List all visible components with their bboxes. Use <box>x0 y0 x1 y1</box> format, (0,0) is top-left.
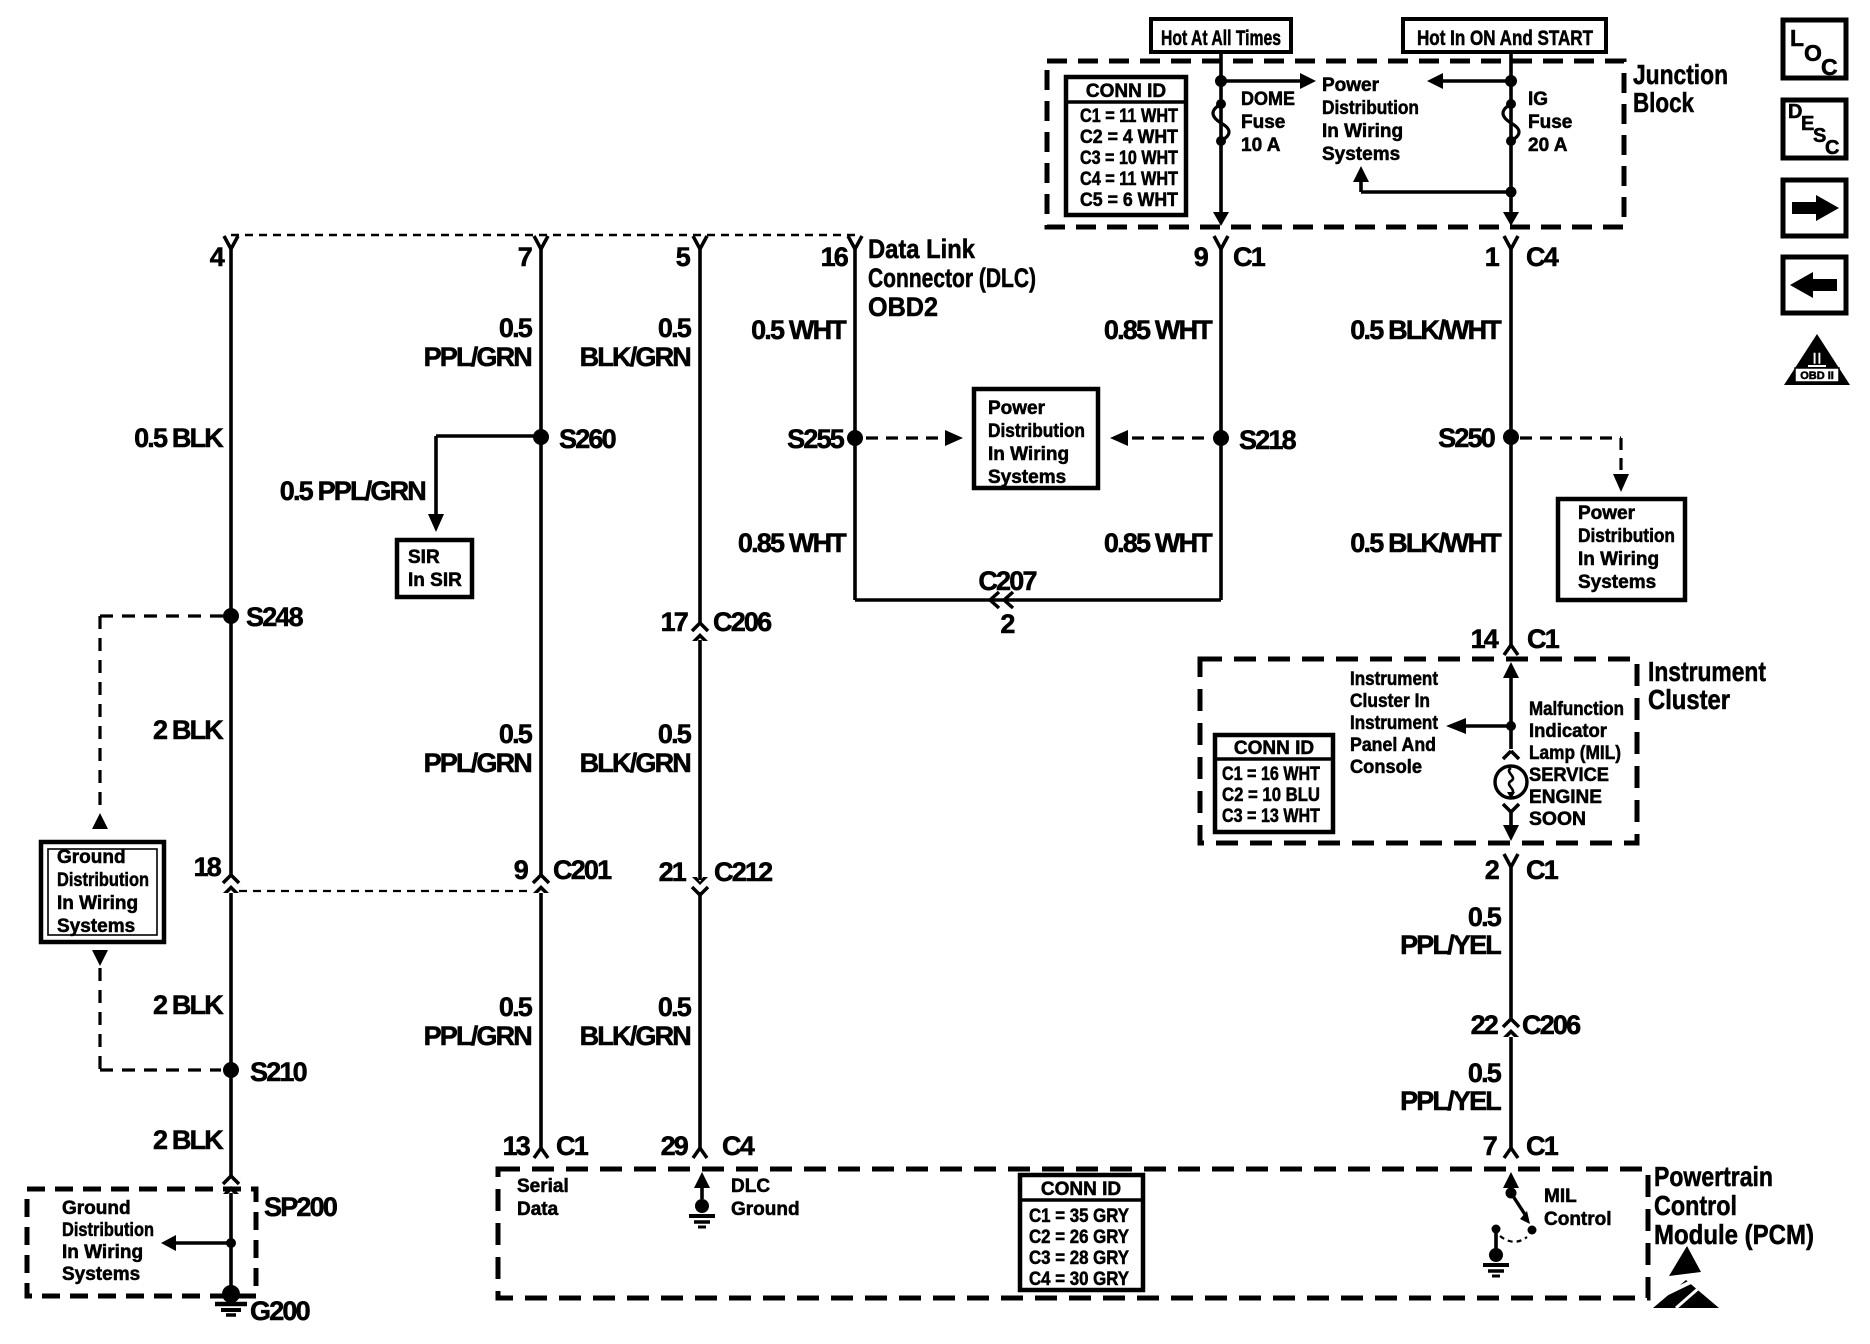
svg-text:C5 = 6 WHT: C5 = 6 WHT <box>1080 190 1178 211</box>
svg-text:C4: C4 <box>1526 242 1559 272</box>
svg-text:S210: S210 <box>250 1057 307 1087</box>
svg-text:Instrument: Instrument <box>1648 656 1766 687</box>
svg-text:In Wiring: In Wiring <box>1322 121 1403 142</box>
svg-text:PPL/YEL: PPL/YEL <box>1400 930 1501 960</box>
svg-text:In Wiring: In Wiring <box>62 1242 143 1263</box>
svg-text:Fuse: Fuse <box>1528 112 1572 133</box>
svg-text:Instrument: Instrument <box>1350 669 1439 690</box>
svg-text:Cluster: Cluster <box>1648 684 1730 715</box>
svg-text:C: C <box>1821 54 1838 80</box>
svg-text:SOON: SOON <box>1529 809 1586 830</box>
svg-text:9: 9 <box>1194 242 1209 272</box>
svg-text:PPL/GRN: PPL/GRN <box>424 342 532 372</box>
svg-text:C206: C206 <box>713 607 772 637</box>
svg-text:SERVICE: SERVICE <box>1529 765 1609 786</box>
svg-text:0.5: 0.5 <box>1468 902 1502 932</box>
svg-text:C1: C1 <box>1233 242 1266 272</box>
svg-text:C1: C1 <box>1526 1131 1559 1161</box>
svg-text:7: 7 <box>518 242 532 272</box>
svg-text:Systems: Systems <box>1322 144 1400 165</box>
svg-text:In Wiring: In Wiring <box>57 893 138 914</box>
svg-text:Distribution: Distribution <box>1578 526 1675 547</box>
svg-text:L: L <box>1790 25 1804 51</box>
svg-text:Serial: Serial <box>517 1176 569 1197</box>
svg-text:S218: S218 <box>1239 425 1297 455</box>
svg-text:16: 16 <box>821 242 849 272</box>
svg-text:In Wiring: In Wiring <box>988 444 1069 465</box>
svg-text:Console: Console <box>1350 757 1422 778</box>
svg-text:0.5: 0.5 <box>499 719 533 749</box>
svg-text:BLK/GRN: BLK/GRN <box>580 748 691 778</box>
svg-text:Connector (DLC): Connector (DLC) <box>868 263 1036 293</box>
svg-text:0.5 PPL/GRN: 0.5 PPL/GRN <box>280 476 426 506</box>
svg-text:ENGINE: ENGINE <box>1529 787 1602 808</box>
svg-text:CONN ID: CONN ID <box>1086 81 1166 102</box>
svg-text:Malfunction: Malfunction <box>1529 699 1624 720</box>
svg-text:C2 = 10 BLU: C2 = 10 BLU <box>1222 785 1320 806</box>
svg-text:2: 2 <box>1485 855 1499 885</box>
svg-text:OBD II: OBD II <box>1800 370 1834 382</box>
svg-text:9: 9 <box>514 855 529 885</box>
svg-text:13: 13 <box>503 1131 531 1161</box>
svg-text:S255: S255 <box>787 424 845 454</box>
svg-text:0.85 WHT: 0.85 WHT <box>1104 315 1213 345</box>
svg-text:Block: Block <box>1633 87 1694 118</box>
svg-text:C3 = 10 WHT: C3 = 10 WHT <box>1080 148 1178 169</box>
svg-text:0.5 BLK/WHT: 0.5 BLK/WHT <box>1350 315 1502 345</box>
svg-text:0.5 BLK: 0.5 BLK <box>134 423 224 453</box>
svg-text:0.5: 0.5 <box>658 313 692 343</box>
svg-text:0.85 WHT: 0.85 WHT <box>738 528 847 558</box>
svg-text:Ground: Ground <box>57 847 126 868</box>
svg-text:G200: G200 <box>250 1296 310 1326</box>
svg-text:Module (PCM): Module (PCM) <box>1654 1219 1814 1250</box>
svg-text:C206: C206 <box>1522 1010 1581 1040</box>
svg-text:O: O <box>1804 40 1822 66</box>
svg-text:C2 = 4 WHT: C2 = 4 WHT <box>1080 127 1178 148</box>
svg-text:S260: S260 <box>559 424 616 454</box>
svg-text:C4: C4 <box>722 1131 755 1161</box>
svg-text:0.5: 0.5 <box>1468 1058 1502 1088</box>
svg-text:2 BLK: 2 BLK <box>153 1125 224 1155</box>
svg-text:C1 = 11 WHT: C1 = 11 WHT <box>1080 106 1178 127</box>
svg-text:Distribution: Distribution <box>1322 98 1419 119</box>
svg-text:1: 1 <box>1485 242 1500 272</box>
svg-text:CONN ID: CONN ID <box>1041 1179 1121 1200</box>
svg-text:Power: Power <box>1322 75 1380 96</box>
svg-text:18: 18 <box>194 852 222 882</box>
svg-text:Systems: Systems <box>57 916 135 937</box>
svg-text:Data: Data <box>517 1199 559 1220</box>
svg-text:0.5: 0.5 <box>658 719 692 749</box>
svg-text:Distribution: Distribution <box>57 870 149 891</box>
svg-text:Power: Power <box>988 398 1046 419</box>
svg-text:SIR: SIR <box>408 547 440 568</box>
svg-text:In Wiring: In Wiring <box>1578 549 1659 570</box>
svg-text:C3 = 28 GRY: C3 = 28 GRY <box>1029 1248 1129 1269</box>
svg-text:2 BLK: 2 BLK <box>153 990 224 1020</box>
svg-text:C207: C207 <box>978 566 1036 596</box>
svg-text:Lamp (MIL): Lamp (MIL) <box>1529 743 1621 764</box>
svg-text:2: 2 <box>1000 609 1014 639</box>
svg-text:C4 = 30 GRY: C4 = 30 GRY <box>1029 1269 1129 1290</box>
svg-text:C1 = 35 GRY: C1 = 35 GRY <box>1029 1206 1129 1227</box>
svg-text:Data Link: Data Link <box>868 234 976 264</box>
svg-text:0.5 WHT: 0.5 WHT <box>751 315 847 345</box>
svg-text:C1: C1 <box>556 1131 589 1161</box>
svg-text:IG: IG <box>1528 89 1548 110</box>
svg-text:OBD2: OBD2 <box>868 292 938 322</box>
svg-text:Instrument: Instrument <box>1350 713 1439 734</box>
svg-text:7: 7 <box>1483 1131 1497 1161</box>
svg-text:DLC: DLC <box>731 1176 770 1197</box>
svg-text:BLK/GRN: BLK/GRN <box>580 342 691 372</box>
svg-text:Powertrain: Powertrain <box>1654 1161 1773 1192</box>
svg-text:S248: S248 <box>246 602 304 632</box>
svg-text:Ground: Ground <box>731 1199 800 1220</box>
svg-text:10 A: 10 A <box>1241 135 1281 156</box>
svg-text:Systems: Systems <box>1578 572 1656 593</box>
svg-text:In SIR: In SIR <box>408 570 462 591</box>
svg-text:PPL/GRN: PPL/GRN <box>424 1021 532 1051</box>
svg-text:Hot At All Times: Hot At All Times <box>1161 27 1281 50</box>
svg-text:CONN ID: CONN ID <box>1234 738 1314 759</box>
svg-text:21: 21 <box>659 857 687 887</box>
svg-text:BLK/GRN: BLK/GRN <box>580 1021 691 1051</box>
svg-text:Control: Control <box>1654 1190 1737 1221</box>
svg-text:C3 = 13 WHT: C3 = 13 WHT <box>1222 806 1320 827</box>
svg-text:Junction: Junction <box>1633 59 1728 90</box>
svg-text:Systems: Systems <box>62 1264 140 1285</box>
svg-text:Fuse: Fuse <box>1241 112 1285 133</box>
svg-text:0.5 BLK/WHT: 0.5 BLK/WHT <box>1350 528 1502 558</box>
svg-text:Ground: Ground <box>62 1198 131 1219</box>
svg-text:0.5: 0.5 <box>658 992 692 1022</box>
svg-text:0.5: 0.5 <box>499 313 533 343</box>
svg-text:C2 = 26 GRY: C2 = 26 GRY <box>1029 1227 1129 1248</box>
svg-text:PPL/YEL: PPL/YEL <box>1400 1086 1501 1116</box>
svg-text:Cluster In: Cluster In <box>1350 691 1430 712</box>
svg-text:C4 = 11 WHT: C4 = 11 WHT <box>1080 169 1178 190</box>
svg-text:0.85 WHT: 0.85 WHT <box>1104 528 1213 558</box>
svg-text:Distribution: Distribution <box>988 421 1085 442</box>
svg-text:PPL/GRN: PPL/GRN <box>424 748 532 778</box>
svg-text:Hot In ON And START: Hot In ON And START <box>1417 27 1593 50</box>
svg-text:17: 17 <box>661 607 688 637</box>
svg-text:C1: C1 <box>1526 855 1559 885</box>
svg-text:C: C <box>1825 137 1839 159</box>
svg-text:DOME: DOME <box>1241 89 1295 110</box>
svg-text:C212: C212 <box>714 857 772 887</box>
svg-text:Control: Control <box>1544 1209 1612 1230</box>
svg-text:22: 22 <box>1471 1010 1498 1040</box>
svg-text:2 BLK: 2 BLK <box>153 715 224 745</box>
svg-text:SP200: SP200 <box>264 1192 337 1222</box>
svg-text:Panel And: Panel And <box>1350 735 1436 756</box>
svg-text:C1: C1 <box>1527 624 1560 654</box>
svg-text:S250: S250 <box>1438 423 1495 453</box>
svg-text:14: 14 <box>1471 624 1499 654</box>
svg-text:Systems: Systems <box>988 467 1066 488</box>
svg-text:20 A: 20 A <box>1528 135 1568 156</box>
svg-text:MIL: MIL <box>1544 1186 1577 1207</box>
svg-text:4: 4 <box>210 242 225 272</box>
svg-text:Distribution: Distribution <box>62 1220 154 1241</box>
svg-text:C1 = 16 WHT: C1 = 16 WHT <box>1222 764 1320 785</box>
svg-text:C201: C201 <box>553 855 612 885</box>
svg-text:0.5: 0.5 <box>499 992 533 1022</box>
svg-text:5: 5 <box>676 242 691 272</box>
svg-text:29: 29 <box>661 1131 689 1161</box>
svg-text:Indicator: Indicator <box>1529 721 1608 742</box>
svg-text:Power: Power <box>1578 503 1636 524</box>
